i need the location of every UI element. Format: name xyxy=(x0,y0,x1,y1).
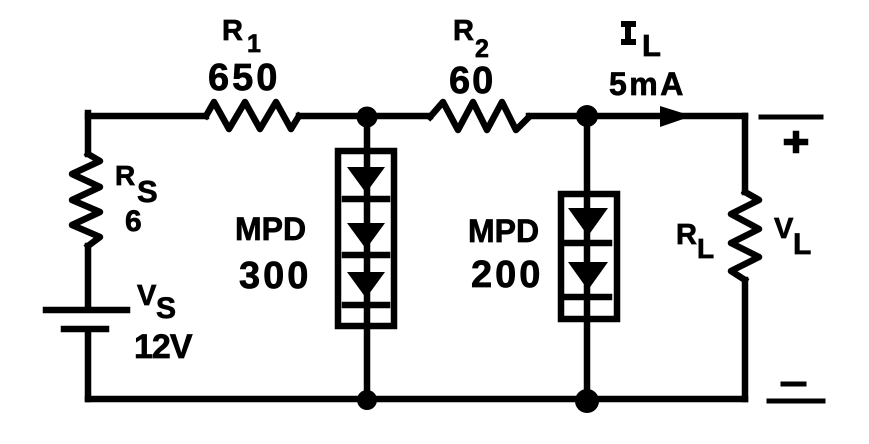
label R1 xyxy=(222,15,261,58)
wire top-left horizontal (left corner to R1) xyxy=(88,113,206,120)
svg-text:1: 1 xyxy=(247,30,261,58)
svg-text:MPD: MPD xyxy=(235,211,306,247)
resistor RS xyxy=(72,154,100,246)
wire left vertical upper xyxy=(85,113,92,154)
node B junction dot top-right xyxy=(576,105,598,127)
node A junction dot top-left xyxy=(357,107,378,128)
label R2 value 60 xyxy=(449,60,495,102)
diode D2 of MPD300 xyxy=(345,223,387,255)
node C junction dot bottom-left xyxy=(357,390,377,410)
diode module MPD200 box xyxy=(561,194,617,319)
wire bottom horizontal xyxy=(88,396,745,403)
label RS xyxy=(115,160,158,209)
svg-text:L: L xyxy=(793,228,811,261)
svg-text:V: V xyxy=(137,280,157,312)
plus terminal overbar xyxy=(761,115,821,120)
battery VS negative plate xyxy=(64,326,106,333)
label MPD 300 value xyxy=(239,255,311,297)
svg-text:2: 2 xyxy=(475,35,489,63)
minus terminal underbar xyxy=(769,399,823,404)
wire branch MPD200 xyxy=(584,116,591,399)
wire node B to top-right corner xyxy=(587,113,745,120)
plus terminal sign xyxy=(787,134,805,150)
diode D3 of MPD300 xyxy=(345,272,387,305)
svg-text:R: R xyxy=(453,15,474,47)
resistor RL xyxy=(731,192,759,280)
diode D1 of MPD200 xyxy=(567,208,609,243)
node D junction dot bottom-right xyxy=(575,389,599,413)
wire right vertical lower xyxy=(742,280,749,399)
label RS value 6 xyxy=(125,205,142,238)
current arrow IL xyxy=(660,106,692,127)
resistor R1 xyxy=(206,102,299,129)
svg-text:60: 60 xyxy=(449,60,495,102)
svg-text:300: 300 xyxy=(239,255,311,297)
svg-text:V: V xyxy=(774,213,794,245)
wire R2 to node B xyxy=(529,113,587,120)
svg-text:R: R xyxy=(676,219,697,251)
wire right vertical upper xyxy=(742,116,749,192)
svg-text:L: L xyxy=(642,28,661,63)
svg-text:650: 650 xyxy=(208,57,280,99)
wire R1 to node A xyxy=(299,113,367,120)
wire battery to bottom-left corner xyxy=(85,331,92,399)
label VS value 12V xyxy=(134,328,193,366)
diode D2 of MPD200 xyxy=(567,262,609,297)
battery VS positive plate xyxy=(46,307,127,314)
svg-text:L: L xyxy=(697,233,714,264)
label MPD 300 name xyxy=(235,211,306,247)
svg-text:S: S xyxy=(156,292,176,325)
diode module MPD300 box xyxy=(338,151,394,326)
label IL value 5mA xyxy=(609,66,686,102)
svg-text:12V: 12V xyxy=(134,328,193,366)
svg-text:MPD: MPD xyxy=(468,213,539,249)
svg-text:R: R xyxy=(222,15,243,47)
label RL xyxy=(676,219,714,264)
resistor R2 xyxy=(430,102,529,130)
diode D1 of MPD300 xyxy=(345,167,387,199)
label IL current xyxy=(621,24,661,63)
wire branch MPD300 xyxy=(364,116,371,399)
svg-text:S: S xyxy=(137,174,158,209)
svg-text:6: 6 xyxy=(125,205,142,238)
label MPD 200 name xyxy=(468,213,539,249)
svg-text:5mA: 5mA xyxy=(609,66,686,102)
label VS xyxy=(137,280,176,325)
label R2 xyxy=(453,15,489,63)
svg-text:200: 200 xyxy=(471,254,543,296)
wire RS to battery xyxy=(85,246,92,308)
svg-text:R: R xyxy=(115,160,135,191)
label MPD 200 value xyxy=(471,254,543,296)
label VL xyxy=(774,213,811,261)
label R1 value 650 xyxy=(208,57,280,99)
minus terminal sign xyxy=(783,382,804,387)
wire node A to R2 xyxy=(367,113,430,120)
